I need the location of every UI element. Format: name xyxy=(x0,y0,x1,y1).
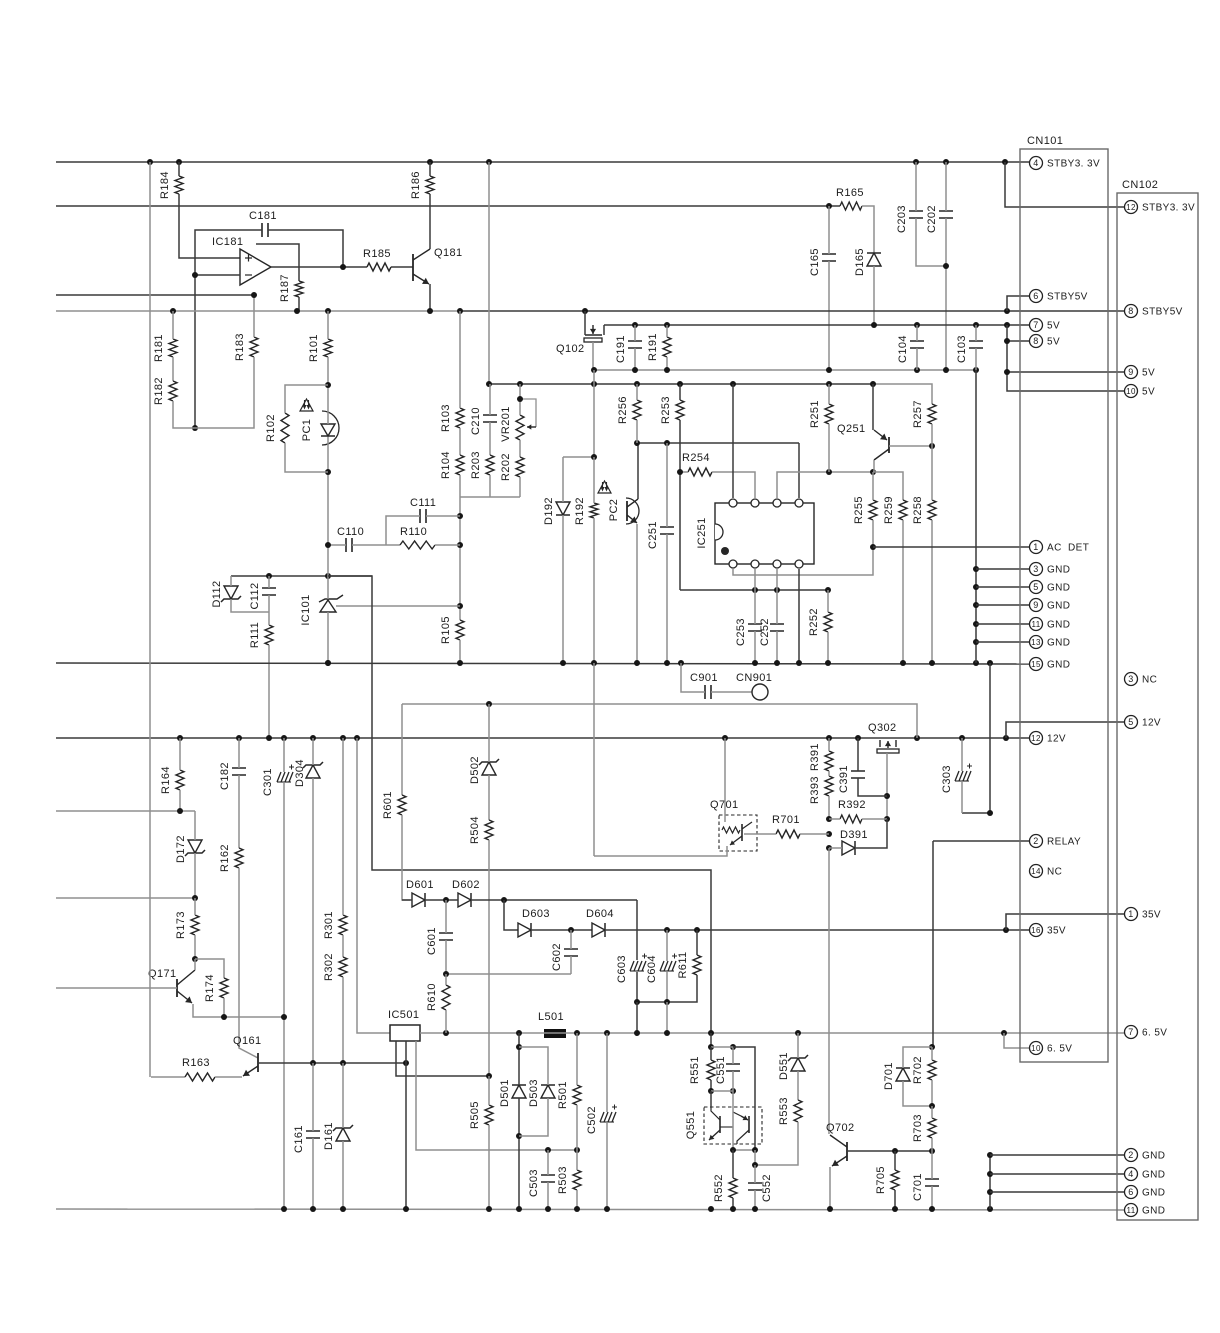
wire R183 bottom lead xyxy=(195,357,254,428)
wire x594 lower column xyxy=(593,663,595,856)
svg-text:12: 12 xyxy=(1031,734,1041,743)
pin CN102-10 5V xyxy=(1125,385,1138,398)
junctions on 6.5V rail xyxy=(443,1030,449,1036)
wire C552 leads xyxy=(754,1165,756,1183)
wire C181 feedback right xyxy=(268,230,343,267)
wire bypass line y704 xyxy=(402,704,917,738)
wire C111 left link xyxy=(386,516,420,545)
svg-text:Q551: Q551 xyxy=(685,1111,697,1140)
svg-text:R302: R302 xyxy=(323,953,335,981)
wire C191 leads xyxy=(634,325,636,341)
junction on Q161 collector line xyxy=(310,1060,316,1066)
svg-text:R254: R254 xyxy=(682,452,710,464)
svg-text:R701: R701 xyxy=(772,814,800,826)
svg-text:11: 11 xyxy=(1031,620,1040,629)
resistor R257 xyxy=(928,404,936,424)
wire D701 loop bottom xyxy=(903,1081,932,1106)
svg-text:5V: 5V xyxy=(1047,321,1060,332)
svg-text:GND: GND xyxy=(1047,638,1070,649)
junctions on bottom rail xyxy=(281,1206,287,1212)
electrolytic C301 xyxy=(277,772,281,782)
svg-text:C601: C601 xyxy=(426,927,438,955)
wire pin12 feed xyxy=(1005,162,1124,207)
resistor R181 xyxy=(169,339,177,357)
opto PC1 LED xyxy=(321,424,335,436)
wire C604 drop to 6.5V rail xyxy=(666,1002,668,1033)
svg-text:D165: D165 xyxy=(854,248,866,276)
wire R173 bottom lead xyxy=(194,935,196,959)
electrolytic C603 xyxy=(630,961,634,971)
junctions on x459 column xyxy=(457,513,463,519)
wire y576 link line xyxy=(231,575,372,577)
junction R392 left xyxy=(826,816,832,822)
svg-text:R703: R703 xyxy=(912,1114,924,1142)
connector CN102 box xyxy=(1117,193,1198,1220)
wire R255 bottom lead xyxy=(872,520,874,547)
wire R551 leads xyxy=(710,1047,712,1060)
resistor R251 xyxy=(825,404,833,424)
svg-text:D112: D112 xyxy=(211,580,223,607)
wire 5V pins ladder xyxy=(1007,325,1124,391)
wire R253 long column xyxy=(679,420,681,590)
junction R505 top xyxy=(486,1073,492,1079)
resistor R252 xyxy=(824,612,832,632)
junction on 5V ladder xyxy=(1004,338,1010,344)
wire GND pin13 stub xyxy=(976,641,1029,643)
resistor R164 xyxy=(176,770,184,790)
junction AC DET node xyxy=(870,544,876,550)
wire R392 right lead xyxy=(862,818,887,820)
wire R258 bottom long xyxy=(931,520,933,663)
svg-text:C111: C111 xyxy=(410,497,436,509)
wire pin10 branch xyxy=(1004,1033,1029,1048)
zener diode D172 xyxy=(188,840,202,853)
svg-text:IC251: IC251 xyxy=(696,517,708,548)
svg-text:R551: R551 xyxy=(689,1056,701,1084)
opto PC2 transistor xyxy=(626,498,639,524)
junction minus input xyxy=(192,272,198,278)
wire C182 top lead xyxy=(238,738,240,768)
wire PC2 emitter xyxy=(636,524,638,663)
svg-text:R553: R553 xyxy=(778,1097,790,1125)
wire R610 top lead xyxy=(445,974,447,985)
pin CN102-2 GND xyxy=(1125,1149,1138,1162)
wire R163 line xyxy=(151,1076,185,1078)
transistor Q701 xyxy=(719,815,757,851)
svg-text:C502: C502 xyxy=(586,1106,598,1134)
svg-text:11: 11 xyxy=(1126,1206,1135,1215)
junction D172/R173 xyxy=(192,895,198,901)
wire D112 top lead xyxy=(230,576,232,586)
svg-text:NC: NC xyxy=(1047,867,1062,878)
wire R551/C551 bottom link xyxy=(711,1090,733,1092)
wire C604 bottom lead xyxy=(666,972,668,1002)
wire C104 leads xyxy=(916,325,918,341)
wire Q102 drain xyxy=(584,311,586,335)
resistor R254 xyxy=(688,468,712,476)
wire R391 top lead xyxy=(828,738,830,751)
svg-text:C303: C303 xyxy=(941,765,953,793)
wire C103 leads xyxy=(975,325,977,341)
resistor R501 xyxy=(573,1085,581,1105)
transistor Q302 FET xyxy=(880,740,896,747)
resistor R182 xyxy=(169,381,177,401)
capacitor C901 xyxy=(705,685,711,699)
wire C603 feed column xyxy=(636,900,638,960)
svg-text:D172: D172 xyxy=(175,835,187,863)
wire D112 bottom lead xyxy=(231,599,269,612)
svg-text:R173: R173 xyxy=(175,911,187,939)
wire C503 top lead xyxy=(547,1150,549,1175)
wire R192 bottom long xyxy=(593,518,595,663)
wire C202 bottom long xyxy=(945,218,947,370)
wire PC1 top lead xyxy=(327,385,329,424)
capacitor C391 xyxy=(851,771,865,778)
wire R553 bottom lead xyxy=(797,1122,799,1143)
wire D304 bottom long xyxy=(312,778,314,1063)
junctions on y384 rail xyxy=(486,381,492,387)
wire D701 loop top xyxy=(903,1047,932,1068)
wire D391 cathode to source xyxy=(856,819,887,848)
svg-text:GND: GND xyxy=(1142,1170,1165,1181)
svg-text:C165: C165 xyxy=(809,248,821,276)
svg-text:R252: R252 xyxy=(808,608,820,636)
resistor R302 xyxy=(339,957,347,977)
capacitor C112 xyxy=(262,588,276,595)
junction y704 xyxy=(486,701,492,707)
wire D172 top lead xyxy=(194,811,196,840)
wire GND pin6 stub xyxy=(990,1191,1124,1193)
svg-text:D502: D502 xyxy=(469,756,481,784)
wire D161 top lead xyxy=(342,1063,344,1128)
resistor R173 xyxy=(191,915,199,935)
svg-text:R255: R255 xyxy=(853,496,865,524)
resistor R183 xyxy=(250,337,258,357)
svg-text:L501: L501 xyxy=(538,1011,564,1023)
svg-text:R505: R505 xyxy=(469,1101,481,1129)
svg-text:R259: R259 xyxy=(883,496,895,524)
svg-text:R552: R552 xyxy=(713,1174,725,1202)
wire C303 top lead xyxy=(961,738,963,771)
resistor R110 xyxy=(400,541,435,549)
potentiometer VR201 xyxy=(516,415,524,440)
wire op-amp output xyxy=(271,266,367,268)
junction C601 tap xyxy=(443,897,449,903)
diode D604 xyxy=(592,923,605,937)
IC U IC251 xyxy=(715,503,814,564)
wire IC501 middle leg xyxy=(405,1041,407,1209)
svg-text:7: 7 xyxy=(1033,320,1038,330)
wire Q702 base line xyxy=(847,1150,932,1152)
svg-text:C110: C110 xyxy=(337,526,364,538)
junction R173/R174/Q171 xyxy=(192,956,198,962)
svg-text:C191: C191 xyxy=(615,335,627,363)
wire D391 anode lead xyxy=(829,847,842,849)
svg-text:R104: R104 xyxy=(440,451,452,479)
wire C253 leads xyxy=(754,590,756,624)
svg-text:STBY3. 3V: STBY3. 3V xyxy=(1047,159,1100,170)
wire IC101 cathode loop xyxy=(328,576,711,1033)
svg-text:R202: R202 xyxy=(500,453,512,481)
wire pin7 drop xyxy=(776,569,778,590)
electrolytic C303 xyxy=(955,771,959,781)
svg-text:GND: GND xyxy=(1142,1206,1165,1217)
wire C552 bottom xyxy=(754,1190,756,1209)
wire D601-D602 link xyxy=(425,899,458,901)
svg-text:C301: C301 xyxy=(262,768,274,796)
wire 5V rail xyxy=(604,324,1029,326)
wire R610 bottom lead xyxy=(445,1010,447,1033)
svg-text:D604: D604 xyxy=(586,908,614,920)
svg-text:RELAY: RELAY xyxy=(1047,837,1081,848)
wire RELAY line xyxy=(933,840,1029,842)
resistor R552 xyxy=(729,1178,737,1198)
svg-text:R257: R257 xyxy=(912,400,924,428)
pin CN101-11 GND xyxy=(1030,618,1043,631)
svg-text:R256: R256 xyxy=(617,396,629,424)
pin CN101-8 5V xyxy=(1030,335,1043,348)
resistor R186 xyxy=(426,176,434,194)
wire pin8 5V stub xyxy=(1007,340,1029,342)
wire D503 loop bottom xyxy=(519,1098,548,1136)
diode D601 xyxy=(412,893,425,907)
svg-text:6. 5V: 6. 5V xyxy=(1047,1044,1072,1055)
wire C203 bottom xyxy=(916,218,946,266)
junction D501/D503 bottom xyxy=(516,1133,522,1139)
wire base rail y988 xyxy=(56,987,177,989)
junction R551/C551 bottom xyxy=(708,1088,714,1094)
wire R103-R104 link xyxy=(459,428,461,455)
resistor R503 xyxy=(573,1170,581,1190)
wire C210 top lead xyxy=(489,384,491,415)
wire stub rail y811 xyxy=(56,810,195,812)
wire R191 bottom xyxy=(666,357,668,370)
wire Q181 collector lead xyxy=(429,194,431,249)
wire C252 bottom xyxy=(776,631,778,663)
capacitor C165 xyxy=(822,254,836,261)
transistor Q551 pair xyxy=(704,1107,762,1144)
wire C110 left lead xyxy=(328,544,346,546)
wire y497 joining line xyxy=(460,496,520,498)
wire R505 bottom lead xyxy=(488,1125,490,1209)
resistor R102 xyxy=(281,413,289,443)
wire x150 long column xyxy=(149,162,151,1077)
wire rail STBY5V right xyxy=(460,310,1124,312)
svg-text:D501: D501 xyxy=(499,1079,511,1107)
wire R202 bottom lead xyxy=(519,477,521,497)
wire R301-R302 link xyxy=(342,935,344,957)
wire R257 bottom lead xyxy=(931,424,933,446)
svg-text:CN901: CN901 xyxy=(736,672,772,684)
wire D501 top lead xyxy=(518,1033,520,1085)
diode D501 xyxy=(512,1085,526,1098)
capacitor C552 xyxy=(748,1183,762,1190)
svg-text:PC1: PC1 xyxy=(301,419,313,442)
svg-text:R191: R191 xyxy=(647,333,659,361)
pin CN101-4 STBY3.3V xyxy=(1030,157,1043,170)
wire rail third (to R183) xyxy=(56,294,254,296)
wire GND pin5 stub xyxy=(976,586,1029,588)
wire R551 top node xyxy=(710,1033,712,1047)
wire C604 top lead xyxy=(666,930,668,961)
junction D701/R702 top xyxy=(929,1044,935,1050)
svg-text:D601: D601 xyxy=(406,879,434,891)
wire R182 bottom lead xyxy=(173,401,195,428)
svg-text:R185: R185 xyxy=(363,248,391,260)
zener diode D502 xyxy=(482,762,496,775)
pin CN102-7 6.5V xyxy=(1125,1026,1138,1039)
capacitor C602 xyxy=(564,949,578,956)
wire R703 bottom lead xyxy=(931,1138,933,1151)
svg-text:GND: GND xyxy=(1047,565,1070,576)
wire R258 top lead xyxy=(931,446,933,500)
resistor R165 xyxy=(840,202,862,210)
wire R256 bottom lead xyxy=(636,420,638,443)
pin CN101-14 NC xyxy=(1030,865,1043,878)
wire Q701 collector feed xyxy=(724,738,726,822)
wire R703 top lead xyxy=(931,1106,933,1118)
svg-text:R392: R392 xyxy=(838,799,866,811)
IC U IC501 xyxy=(390,1025,420,1041)
svg-text:D503: D503 xyxy=(528,1079,540,1107)
svg-text:R183: R183 xyxy=(234,333,246,361)
svg-text:CN102: CN102 xyxy=(1122,179,1158,191)
wire R186 top lead xyxy=(429,162,431,176)
svg-text:C104: C104 xyxy=(897,335,909,363)
wire R163 to Q161 emitter xyxy=(215,1076,242,1078)
capacitor C210 xyxy=(483,415,497,422)
svg-text:C251: C251 xyxy=(647,521,659,549)
wire R181 leads xyxy=(172,311,174,339)
diode D391 xyxy=(842,841,855,855)
wire R505 top lead xyxy=(488,1076,490,1105)
wire C182 to R162 xyxy=(238,775,240,848)
svg-text:R301: R301 xyxy=(323,911,335,939)
wire Q171 collector lead xyxy=(194,959,196,970)
wire R251 bottom lead xyxy=(828,424,830,472)
svg-text:16: 16 xyxy=(1031,926,1041,935)
junction R253/R254 xyxy=(677,469,683,475)
svg-text:C252: C252 xyxy=(759,618,771,646)
junction D603 drop tap xyxy=(501,897,507,903)
resistor R162 xyxy=(235,848,243,868)
wire Q551 right loop xyxy=(733,1047,755,1150)
svg-text:NC: NC xyxy=(1142,675,1157,686)
resistor R202 xyxy=(516,457,524,477)
svg-text:GND: GND xyxy=(1047,601,1070,612)
wire D161 bottom lead xyxy=(342,1141,344,1209)
wire D603 out lead xyxy=(531,929,592,931)
wire Q302 source xyxy=(886,753,888,819)
electrolytic C502 xyxy=(600,1112,604,1122)
svg-text:Q161: Q161 xyxy=(233,1035,262,1047)
inductor L501 xyxy=(544,1029,566,1038)
resistor R505 xyxy=(485,1105,493,1125)
svg-text:GND: GND xyxy=(1142,1151,1165,1162)
wire R503 bottom lead xyxy=(576,1190,578,1209)
wire C901 right lead xyxy=(711,691,752,693)
zener diode D161 xyxy=(336,1128,350,1141)
resistor R551 xyxy=(707,1060,715,1080)
capacitor C251 xyxy=(660,527,674,534)
wire R601 column xyxy=(401,704,403,795)
wire R392 left lead xyxy=(829,818,840,820)
pin CN102-12 STBY3.3V xyxy=(1125,201,1138,214)
wire R164 top lead xyxy=(179,738,181,770)
svg-text:5V: 5V xyxy=(1142,368,1155,379)
wire C551 bottom lead xyxy=(732,1071,734,1091)
wire D551 top lead xyxy=(797,1033,799,1058)
svg-text:Q251: Q251 xyxy=(837,423,866,435)
svg-text:8: 8 xyxy=(1033,336,1038,346)
svg-text:D304: D304 xyxy=(294,759,306,787)
wire D172 bottom lead xyxy=(194,853,196,898)
svg-text:R101: R101 xyxy=(308,334,320,362)
resistor R192 xyxy=(590,503,598,518)
wire C202 leads xyxy=(945,162,947,211)
svg-text:6. 5V: 6. 5V xyxy=(1142,1028,1167,1039)
svg-text:D602: D602 xyxy=(452,879,480,891)
wire R111 bottom long xyxy=(268,645,270,738)
resistor R187 xyxy=(295,281,303,297)
wire C502 bottom lead xyxy=(606,1123,608,1209)
wire pin4 drop of IC251 xyxy=(798,443,800,498)
junction Q551 bottoms xyxy=(730,1147,736,1153)
wire return line y370 xyxy=(594,369,976,371)
svg-text:6: 6 xyxy=(1033,291,1038,301)
wire C602 bottom lead xyxy=(570,956,572,974)
wire RELAY drop column xyxy=(932,841,934,1047)
svg-text:5: 5 xyxy=(1033,582,1038,592)
wire C161 bottom lead xyxy=(312,1138,314,1209)
wire R301 top lead xyxy=(342,738,344,915)
wire D165 bottom lead xyxy=(873,266,875,325)
wire C112 bottom lead xyxy=(268,595,270,612)
resistor R174 xyxy=(220,978,228,998)
wire IC501 left leg xyxy=(396,1041,489,1076)
resistor R191 xyxy=(663,337,671,357)
pin CN102-5 12V xyxy=(1125,716,1138,729)
svg-text:35V: 35V xyxy=(1047,926,1066,937)
pin CN102-3 NC xyxy=(1125,673,1138,686)
wire x459 column mid xyxy=(459,497,461,620)
junction Q702 base nodes xyxy=(892,1148,898,1154)
svg-text:D161: D161 xyxy=(323,1122,335,1150)
svg-text:C203: C203 xyxy=(896,205,908,233)
svg-text:R393: R393 xyxy=(809,776,821,804)
pin CN101-3 GND xyxy=(1030,563,1043,576)
svg-text:R503: R503 xyxy=(557,1166,569,1194)
svg-text:R105: R105 xyxy=(440,616,452,644)
wire y443 node line xyxy=(637,442,799,444)
wire R702 bottom lead xyxy=(931,1080,933,1106)
resistor R203 xyxy=(486,455,494,475)
junctions GND ladder xyxy=(973,566,979,572)
junction y1150 xyxy=(545,1147,551,1153)
svg-text:4: 4 xyxy=(1033,158,1038,168)
junction C552 top xyxy=(752,1162,758,1168)
svg-text:R103: R103 xyxy=(440,404,452,432)
pin CN102-4 GND xyxy=(1125,1168,1138,1181)
wire R501 bottom lead xyxy=(576,1105,578,1150)
wire R253 top lead xyxy=(679,384,681,400)
wire 6.5V output rail xyxy=(420,1032,1124,1034)
wire C251 bottom lead xyxy=(666,534,668,663)
capacitor C601 xyxy=(439,933,453,940)
svg-text:CN101: CN101 xyxy=(1027,135,1063,147)
wire C111 right link xyxy=(426,515,460,517)
svg-text:9: 9 xyxy=(1128,367,1133,377)
